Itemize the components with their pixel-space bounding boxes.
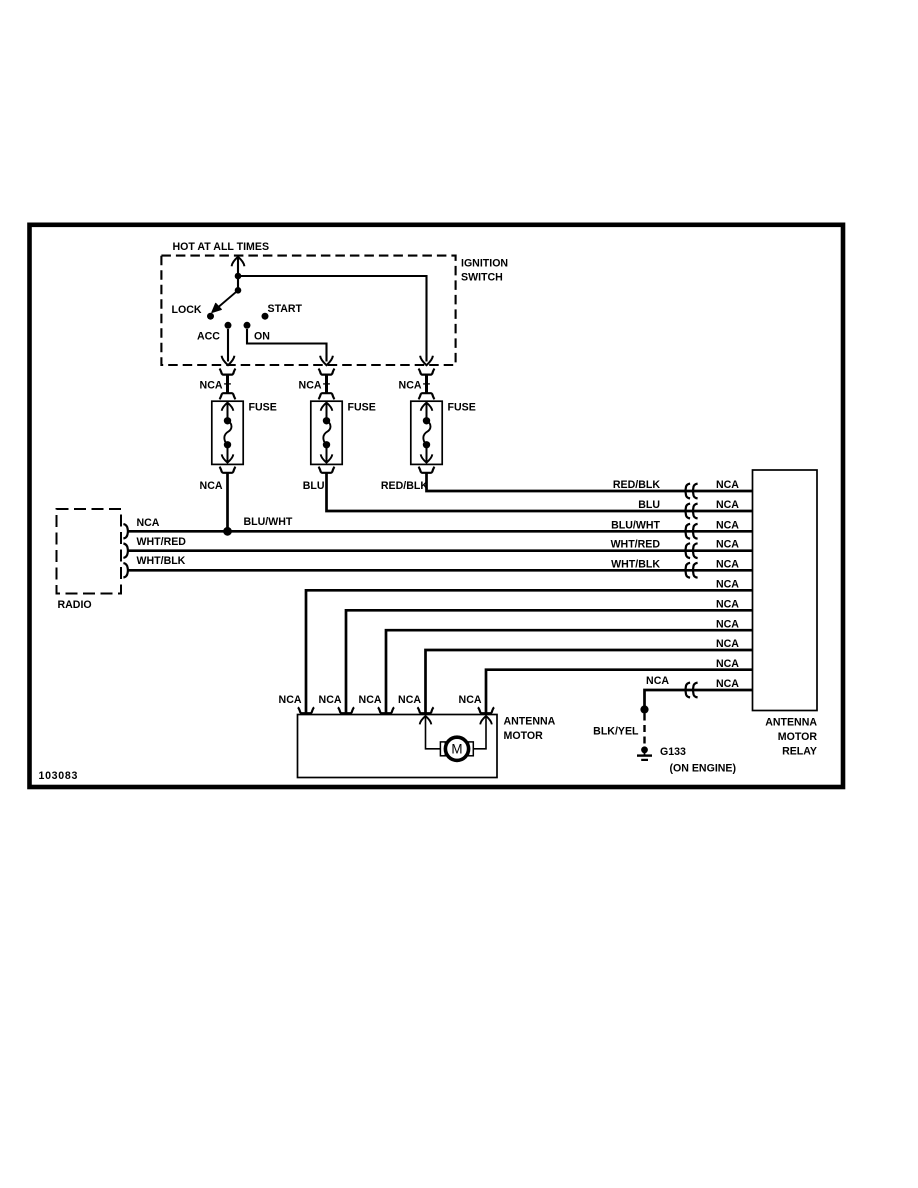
svg-text:MOTOR: MOTOR bbox=[778, 731, 818, 743]
contact ON bbox=[244, 322, 251, 329]
svg-text:NCA: NCA bbox=[716, 579, 739, 591]
connector on BLU/WHT wire bbox=[686, 524, 691, 539]
wire motor pin 4 to motor bbox=[426, 716, 441, 749]
junction dot BLU/WHT bbox=[223, 527, 232, 536]
svg-text:ON: ON bbox=[254, 330, 270, 342]
fuse F3 bbox=[411, 401, 442, 464]
half connector below F3 bbox=[418, 467, 434, 473]
contact START bbox=[262, 313, 269, 320]
connector on ground wire bbox=[686, 683, 691, 698]
svg-text:FUSE: FUSE bbox=[249, 402, 277, 414]
svg-text:RED/BLK: RED/BLK bbox=[381, 480, 428, 492]
wire relay to antenna motor pin 4 bbox=[426, 650, 753, 715]
svg-text:LOCK: LOCK bbox=[172, 304, 202, 316]
svg-text:NCA: NCA bbox=[459, 694, 482, 706]
wire node B1 to START branch bbox=[238, 276, 427, 362]
svg-text:BLU/WHT: BLU/WHT bbox=[611, 519, 660, 531]
radio connector pin 1 bbox=[123, 524, 128, 538]
svg-text:103083: 103083 bbox=[39, 770, 79, 782]
svg-text:MOTOR: MOTOR bbox=[504, 730, 544, 742]
half connector motor pin 1 bbox=[298, 707, 314, 713]
wire radio pin2 to relay WHT/RED bbox=[129, 549, 753, 552]
svg-text:NCA: NCA bbox=[716, 539, 739, 551]
radio connector pin 2 bbox=[123, 544, 128, 558]
wire motor pin 5 to motor bbox=[474, 716, 487, 749]
wire radio pin3 to relay WHT/BLK bbox=[129, 569, 753, 572]
in-line connector C3 NCA bbox=[418, 369, 434, 375]
dashed wire BLK/YEL to ground bbox=[643, 714, 645, 746]
svg-text:WHT/BLK: WHT/BLK bbox=[137, 555, 186, 567]
connector on WHT/BLK wire bbox=[686, 563, 691, 578]
svg-text:NCA: NCA bbox=[716, 638, 739, 650]
node B2 switch pivot bbox=[235, 287, 242, 294]
svg-text:RED/BLK: RED/BLK bbox=[613, 479, 660, 491]
svg-text:WHT/BLK: WHT/BLK bbox=[611, 558, 660, 570]
antenna motor relay box bbox=[753, 470, 818, 711]
contact ACC bbox=[225, 322, 232, 329]
in-line connector C1 NCA bbox=[219, 369, 235, 375]
svg-text:M: M bbox=[451, 742, 462, 757]
svg-text:NCA: NCA bbox=[716, 558, 739, 570]
battery feed arrow bbox=[232, 257, 245, 266]
svg-text:BLU/WHT: BLU/WHT bbox=[244, 516, 293, 528]
connector on RED/BLK wire bbox=[686, 484, 691, 499]
svg-text:BLU: BLU bbox=[638, 499, 660, 511]
svg-text:NCA: NCA bbox=[137, 517, 160, 529]
ignition switch dashed box bbox=[161, 256, 455, 365]
node B1 bbox=[235, 273, 242, 280]
wire node B1 to pivot bbox=[237, 276, 239, 290]
fuse F1 bbox=[212, 401, 243, 464]
wire radio pin1 to relay BLU/WHT bbox=[129, 530, 753, 533]
svg-text:NCA: NCA bbox=[716, 658, 739, 670]
svg-text:NCA: NCA bbox=[319, 694, 342, 706]
wire battery feed to node B1 bbox=[237, 257, 239, 276]
arrow START branch output bbox=[420, 356, 433, 365]
svg-text:RADIO: RADIO bbox=[58, 599, 92, 611]
svg-text:NCA: NCA bbox=[716, 599, 739, 611]
svg-text:BLU: BLU bbox=[303, 480, 325, 492]
svg-text:HOT AT ALL TIMES: HOT AT ALL TIMES bbox=[173, 241, 270, 253]
arrow ACC output bbox=[222, 356, 235, 365]
svg-text:(ON ENGINE): (ON ENGINE) bbox=[670, 762, 737, 774]
junction dot ground wire bbox=[640, 705, 648, 713]
half connector below F2 bbox=[318, 467, 334, 473]
motor M bbox=[445, 737, 468, 760]
wire F1 down to junction bbox=[226, 473, 229, 532]
svg-text:WHT/RED: WHT/RED bbox=[611, 539, 661, 551]
radio dashed box bbox=[57, 509, 122, 594]
svg-text:ACC: ACC bbox=[197, 330, 220, 342]
svg-text:NCA: NCA bbox=[716, 519, 739, 531]
arrow ON output bbox=[320, 356, 333, 365]
switch lever bbox=[216, 290, 239, 309]
arrow motor pin 4 internal bbox=[420, 716, 432, 724]
svg-text:NCA: NCA bbox=[716, 479, 739, 491]
switch lever arrowhead bbox=[212, 303, 221, 312]
svg-text:NCA: NCA bbox=[716, 618, 739, 630]
svg-text:WHT/RED: WHT/RED bbox=[137, 536, 187, 548]
svg-text:BLK/YEL: BLK/YEL bbox=[593, 726, 639, 738]
svg-text:NCA: NCA bbox=[200, 480, 223, 492]
wire relay to ground BLK/YEL bbox=[645, 690, 753, 707]
ground G133 bbox=[641, 746, 648, 753]
svg-text:NCA: NCA bbox=[398, 694, 421, 706]
wire relay to antenna motor pin 3 bbox=[386, 630, 753, 714]
svg-text:FUSE: FUSE bbox=[448, 402, 476, 414]
svg-text:NCA: NCA bbox=[716, 678, 739, 690]
svg-text:IGNITION: IGNITION bbox=[461, 257, 508, 269]
connector on WHT/RED wire bbox=[686, 543, 691, 558]
svg-text:NCA: NCA bbox=[646, 675, 669, 687]
in-line connector C2 NCA bbox=[318, 369, 334, 375]
svg-text:FUSE: FUSE bbox=[348, 402, 376, 414]
svg-text:NCA: NCA bbox=[299, 380, 322, 392]
svg-text:NCA: NCA bbox=[359, 694, 382, 706]
connector on BLU wire bbox=[686, 504, 691, 519]
half connector motor pin 3 bbox=[378, 707, 394, 713]
svg-text:START: START bbox=[268, 303, 303, 315]
svg-text:G133: G133 bbox=[660, 746, 686, 758]
svg-text:NCA: NCA bbox=[200, 380, 223, 392]
wire relay to antenna motor pin 2 bbox=[346, 610, 753, 714]
wire F2 to relay BLU bbox=[327, 473, 753, 511]
svg-text:NCA: NCA bbox=[716, 499, 739, 511]
antenna motor box bbox=[298, 715, 498, 778]
half connector motor pin 5 bbox=[478, 707, 494, 713]
wire ACC output bbox=[227, 329, 229, 362]
svg-text:ANTENNA: ANTENNA bbox=[504, 716, 556, 728]
half connector below F1 bbox=[219, 467, 235, 473]
fuse F2 bbox=[311, 401, 342, 464]
wire F3 to relay RED/BLK bbox=[427, 473, 753, 491]
svg-text:NCA: NCA bbox=[279, 694, 302, 706]
arrow motor pin 5 internal bbox=[480, 716, 492, 724]
wire ON output bbox=[247, 329, 327, 362]
contact LOCK bbox=[207, 313, 214, 320]
radio connector pin 3 bbox=[123, 563, 128, 577]
half connector motor pin 2 bbox=[338, 707, 354, 713]
svg-text:RELAY: RELAY bbox=[782, 746, 817, 758]
half connector motor pin 4 bbox=[417, 707, 433, 713]
svg-text:SWITCH: SWITCH bbox=[461, 272, 503, 284]
svg-text:ANTENNA: ANTENNA bbox=[765, 716, 817, 728]
wire relay to antenna motor pin 1 bbox=[306, 590, 753, 714]
wire relay to antenna motor pin 5 bbox=[486, 670, 753, 715]
svg-text:NCA: NCA bbox=[399, 380, 422, 392]
